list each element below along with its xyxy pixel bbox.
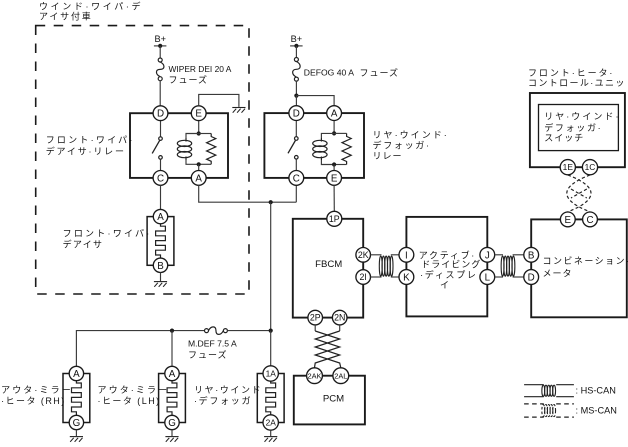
svg-text:PCM: PCM	[323, 393, 344, 404]
svg-text:K: K	[403, 273, 410, 284]
svg-text:フロント·ワイパ·: フロント·ワイパ·	[46, 135, 135, 145]
svg-text:デフォッガ·: デフォッガ·	[544, 122, 602, 133]
meter pin C	[583, 212, 598, 227]
dashed enclosure (wiper de-icer option)	[36, 26, 249, 294]
wire M.DEF bus right segment	[227, 330, 270, 332]
wire coil to relay K2 pin E	[333, 165, 335, 171]
wire FBCM 2N to twisted pair	[339, 325, 341, 331]
wire relay K1 pin E to ground	[199, 94, 239, 107]
svg-text:A: A	[195, 173, 202, 184]
label フロント・ワイパ・デアイサ	[63, 229, 152, 250]
wire de-icer pin B to ground	[160, 273, 162, 282]
svg-text:ドライビング: ドライビング	[421, 259, 481, 270]
ground (rear window defogger)	[264, 437, 277, 442]
svg-text:G: G	[73, 418, 81, 429]
display pin L	[480, 270, 495, 285]
svg-text:C: C	[157, 173, 164, 184]
svg-text:B: B	[157, 261, 164, 272]
FBCM pin 2N	[332, 310, 347, 325]
wire B+ to fuse DEFOG	[295, 46, 297, 58]
ground (mirror heater LH)	[165, 437, 178, 442]
svg-text:2K: 2K	[358, 250, 369, 260]
svg-text:·ヒータ (RH): ·ヒータ (RH)	[1, 396, 66, 406]
svg-text:L: L	[485, 273, 491, 284]
label relay K1	[46, 135, 135, 156]
svg-text:1C: 1C	[585, 162, 596, 172]
PCM pin 2AK	[307, 368, 323, 384]
label fuse DEFOG 40 A	[304, 67, 399, 78]
svg-text:D: D	[528, 273, 535, 284]
wire fuse F1 to relay K1 pin D	[159, 81, 161, 106]
wire relay K2 pin A to coil	[333, 121, 335, 134]
fuse DEFOG 40 A	[293, 58, 301, 82]
wire FBCM 2P to twisted pair	[314, 325, 316, 331]
junction coil bottom (K1)	[197, 162, 201, 166]
junction coil top (K2)	[332, 131, 336, 135]
relay K1 フロント・ワイパ・デアイサ・リレー (box)	[130, 113, 228, 178]
FBCM pin 2K	[356, 248, 371, 263]
module コンビネーション・メータ (box)	[531, 219, 627, 317]
svg-text:B: B	[528, 250, 535, 261]
relay K2 pin C	[289, 171, 304, 186]
wire B+ to fuse F1	[159, 46, 161, 58]
FBCM pin 1P	[327, 211, 342, 226]
junction B+ split (K2)	[294, 94, 298, 98]
de-icer pin A	[153, 209, 167, 223]
svg-text:フューズ: フューズ	[360, 67, 400, 78]
svg-text:スイッチ: スイッチ	[544, 133, 584, 143]
wire relay K2 pin E to FBCM pin 1P	[333, 185, 335, 211]
wire relay K2 pin C down	[295, 185, 297, 202]
legend HS-CAN symbol	[524, 385, 574, 397]
svg-text:フロント·ワイパ·: フロント·ワイパ·	[63, 229, 152, 239]
label heater LH	[98, 385, 170, 406]
module FBCM (box)	[293, 219, 363, 318]
svg-text:2I: 2I	[360, 272, 367, 282]
wire relay K1 pin C to de-icer grid	[160, 185, 162, 209]
junction coil bottom (K2)	[332, 162, 336, 166]
wire junction to relay K2 pin A	[296, 96, 334, 106]
PCM pin 2AL	[333, 368, 349, 384]
svg-text:·ディスプレ: ·ディスプレ	[420, 269, 478, 280]
wire M.DEF bus left segment	[76, 331, 204, 367]
ground (mirror heater RH)	[70, 437, 83, 442]
module PCM (box)	[294, 376, 365, 425]
wire bus to LH heater	[171, 331, 173, 367]
svg-text:J: J	[485, 250, 490, 261]
component リヤ・ウインド・デフォッガ (grid)	[257, 374, 284, 423]
legend MS-CAN symbol	[524, 404, 574, 417]
module フロント・ヒータ・コントロール・ユニット (box)	[530, 93, 625, 167]
svg-text:イ: イ	[440, 280, 450, 290]
meter pin B	[524, 247, 539, 262]
label フロント・ヒータ・コントロール・ユニット	[528, 68, 628, 88]
sub-block リヤ・ウインド・デフォッガ・スイッチ (box)	[539, 105, 619, 151]
svg-text:1P: 1P	[329, 214, 340, 224]
svg-text:アイサ付車: アイサ付車	[39, 10, 93, 21]
wire fuse DEFOG to junction	[295, 81, 297, 96]
label combination meter	[543, 256, 628, 278]
relay K1 switch contact	[152, 121, 162, 171]
wire twisted pair to meter pin B	[513, 254, 524, 256]
svg-text:DEFOG 40 A: DEFOG 40 A	[304, 67, 354, 77]
ground (wiper de-icer)	[154, 282, 167, 287]
relay K1 coil	[177, 134, 198, 165]
svg-text:A: A	[157, 212, 164, 223]
display pin K	[399, 270, 414, 285]
ground (relay K1 coil)	[232, 108, 245, 113]
relay K2 coil resistor	[334, 133, 351, 164]
wire coil to relay K1 pin A	[198, 164, 200, 170]
svg-text:1E: 1E	[563, 162, 574, 172]
svg-text:·デフォッガ: ·デフォッガ	[194, 395, 252, 406]
svg-text:アウタ·ミラー: アウタ·ミラー	[1, 385, 73, 395]
svg-text:デアイサ·リレー: デアイサ·リレー	[46, 146, 126, 157]
wire FBCM 2K to twisted pair	[371, 254, 382, 256]
svg-text:I: I	[405, 250, 408, 261]
power B+ (defogger circuit)	[290, 34, 303, 48]
junction bus to rear defogger	[269, 329, 273, 333]
meter pin D	[524, 270, 539, 285]
component フロント・ワイパ・デアイサ (wiper de-icer grid)	[147, 217, 174, 266]
twisted pair HS-CAN FBCM to display	[379, 256, 393, 276]
svg-text:M.DEF 7.5 A: M.DEF 7.5 A	[188, 339, 237, 349]
svg-text:2AL: 2AL	[334, 371, 347, 380]
label heater RH	[1, 385, 73, 406]
svg-text:メータ: メータ	[543, 269, 573, 279]
svg-text:コンビネーション·: コンビネーション·	[543, 256, 628, 266]
svg-text:A: A	[331, 109, 338, 120]
svg-text:A: A	[169, 369, 176, 380]
svg-text:G: G	[168, 418, 176, 429]
svg-text:2N: 2N	[334, 313, 345, 323]
svg-text:WIPER DEI 20 A: WIPER DEI 20 A	[169, 64, 232, 74]
svg-text:2P: 2P	[310, 313, 321, 323]
label display	[419, 249, 482, 290]
svg-text:リヤ·ウインド·: リヤ·ウインド·	[373, 130, 449, 140]
svg-text:1A: 1A	[266, 369, 277, 379]
svg-text:D: D	[293, 109, 300, 120]
svg-text:コントロール·ユニット: コントロール·ユニット	[528, 78, 628, 88]
svg-text:C: C	[293, 173, 300, 184]
relay K2 switch contact	[288, 121, 298, 171]
junction node to M.DEF bus	[269, 200, 273, 204]
display pin J	[480, 247, 495, 262]
module アクティブ・ドライビング・ディスプレイ (box)	[406, 217, 487, 317]
meter pin E	[560, 212, 575, 227]
svg-text:FBCM: FBCM	[315, 259, 342, 270]
display pin I	[399, 247, 414, 262]
svg-text:2A: 2A	[266, 418, 277, 428]
svg-text:: HS-CAN: : HS-CAN	[576, 385, 616, 395]
wire relay K1 pin A down	[199, 185, 297, 202]
relay K2 リヤ・ウインド・デフォッガ・リレー (box)	[264, 113, 364, 178]
wire relay K1 pin E to coil	[198, 121, 200, 134]
wire junction to relay K2 pin D	[295, 96, 297, 106]
relay K1 pin D	[153, 106, 168, 121]
wire display L to twisted pair	[495, 276, 503, 278]
label rear window defogger	[194, 385, 262, 406]
wire LH heater to ground	[171, 430, 173, 436]
label defogger switch	[544, 112, 620, 143]
svg-text:フロント·ヒータ·: フロント·ヒータ·	[528, 68, 614, 78]
label relay K2	[373, 130, 449, 161]
wire RH heater to ground	[75, 430, 77, 436]
label fuse M.DEF 7.5 A	[188, 339, 237, 360]
svg-text:E: E	[195, 109, 202, 120]
wire FBCM 2I to twisted pair	[371, 276, 382, 278]
junction bus to LH heater	[170, 329, 174, 333]
heater unit pin 1C	[582, 160, 597, 175]
de-icer pin B	[153, 258, 167, 272]
wire display J to twisted pair	[495, 254, 503, 256]
twisted pair HS-CAN display to combination meter	[501, 256, 515, 276]
label fuse WIPER DEI 20 A	[169, 64, 232, 85]
svg-text:E: E	[331, 173, 338, 184]
fuse WIPER DEI 20 A	[156, 58, 164, 81]
FBCM pin 2P	[308, 310, 323, 325]
svg-text:A: A	[73, 369, 80, 380]
relay K1 pin E	[191, 106, 206, 121]
svg-text:フューズ: フューズ	[169, 74, 209, 85]
svg-text:アクティブ·: アクティブ·	[419, 249, 476, 260]
relay K2 pin A	[327, 106, 342, 121]
svg-text:デフォッガ·: デフォッガ·	[373, 140, 431, 151]
wire rear defogger to ground	[270, 430, 272, 436]
svg-text:: MS-CAN: : MS-CAN	[576, 406, 617, 416]
component アウタ・ミラー・ヒータ (LH)	[159, 374, 186, 423]
relay K2 pin E	[327, 171, 342, 186]
wire twisted pair to display pin I	[391, 254, 399, 256]
svg-text:D: D	[157, 109, 164, 120]
svg-text:B+: B+	[154, 34, 166, 44]
wire bus to rear defogger	[270, 331, 272, 366]
wire junction to M.DEF bus	[270, 202, 272, 330]
relay K2 pin D	[289, 106, 304, 121]
relay K1 pin C	[153, 171, 168, 186]
svg-text:·ヒータ (LH): ·ヒータ (LH)	[98, 396, 161, 406]
svg-text:リレー: リレー	[373, 151, 403, 161]
svg-text:C: C	[586, 215, 593, 226]
twisted pair HS-CAN FBCM to PCM	[315, 331, 340, 368]
svg-text:E: E	[565, 215, 572, 226]
relay K1 pin A	[191, 171, 206, 186]
FBCM pin 2I	[356, 270, 371, 285]
note: option label ウインド・ワイパ・デアイサ付車	[39, 0, 143, 21]
relay K1 coil resistor	[199, 134, 216, 165]
svg-text:フューズ: フューズ	[188, 349, 228, 360]
power B+ (wiper de-icer circuit)	[154, 34, 167, 48]
svg-text:デアイサ: デアイサ	[63, 238, 104, 249]
svg-text:2AK: 2AK	[308, 371, 322, 380]
svg-text:アウタ·ミラー: アウタ·ミラー	[98, 385, 170, 395]
svg-text:リヤ·ウインド·: リヤ·ウインド·	[544, 112, 620, 122]
fuse M.DEF 7.5 A	[205, 327, 228, 335]
relay K2 coil	[313, 133, 334, 164]
junction coil top (K1)	[197, 131, 201, 135]
heater unit pin 1E	[560, 160, 575, 175]
twisted pair MS-CAN heater unit to meter (dashed)	[567, 175, 591, 212]
wire twisted pair to meter pin D	[513, 276, 524, 278]
svg-text:リヤ·ウインド: リヤ·ウインド	[194, 385, 262, 395]
wire twisted pair to display pin K	[391, 276, 399, 278]
svg-text:ウインド·ワイパ·デ: ウインド·ワイパ·デ	[39, 0, 143, 11]
component アウタ・ミラー・ヒータ (RH)	[63, 374, 90, 423]
svg-text:B+: B+	[291, 34, 303, 44]
